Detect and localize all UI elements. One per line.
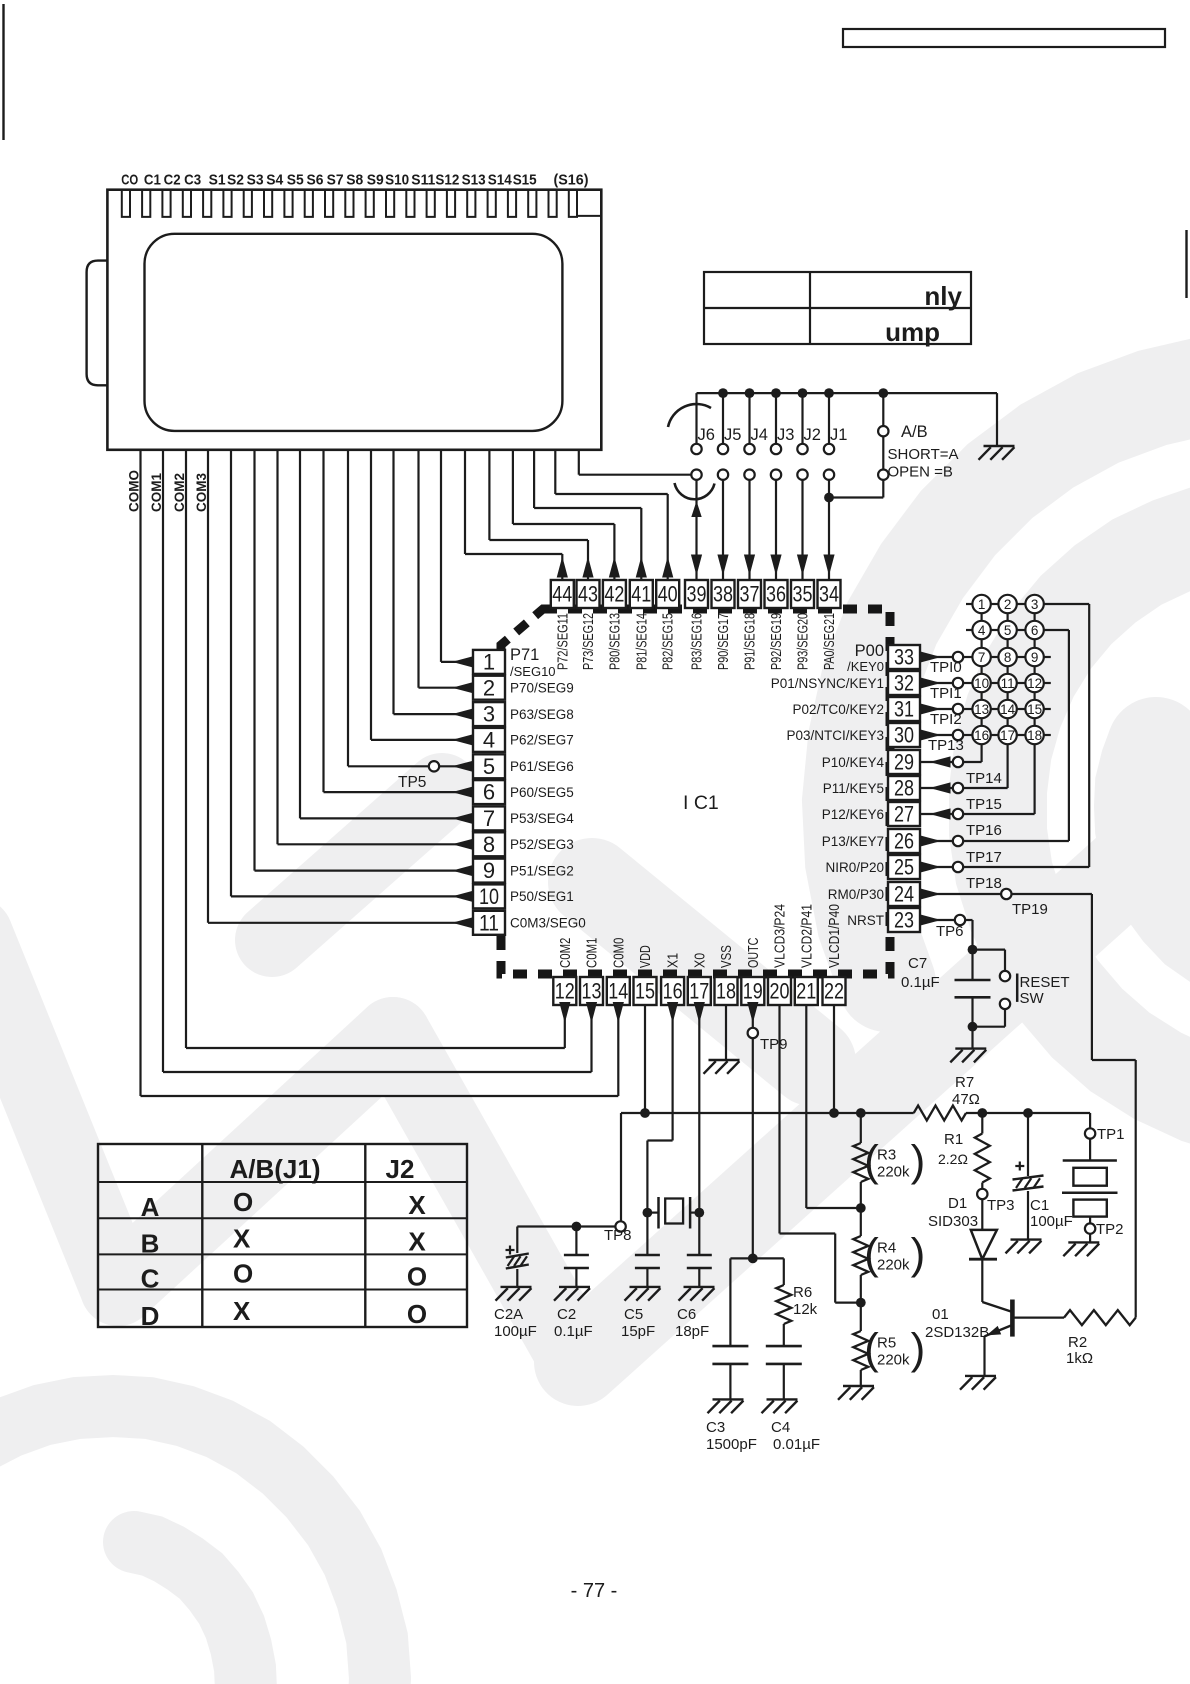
svg-text:1kΩ: 1kΩ [1066,1350,1093,1367]
svg-text:X: X [408,1190,426,1220]
svg-text:TP1: TP1 [1097,1126,1125,1143]
svg-text:43: 43 [578,582,598,607]
svg-text:TP6: TP6 [936,923,964,940]
svg-text:1: 1 [978,597,986,612]
svg-text:31: 31 [894,697,914,722]
svg-text:17: 17 [1000,728,1015,743]
svg-text:C2A: C2A [494,1306,523,1323]
svg-text:RM0/P30: RM0/P30 [828,887,884,902]
svg-text:15: 15 [1027,702,1042,717]
svg-text:/SEG10: /SEG10 [510,664,556,679]
svg-text:R6: R6 [793,1284,812,1301]
svg-text:I C1: I C1 [683,792,719,814]
svg-text:P13/KEY7: P13/KEY7 [822,834,884,849]
svg-text:7: 7 [483,806,495,831]
svg-text:VLCD1/P40: VLCD1/P40 [827,904,843,968]
svg-text:X: X [408,1226,426,1256]
svg-text:TP16: TP16 [966,822,1002,839]
svg-text:6: 6 [483,780,495,805]
svg-text:P92/SEG19: P92/SEG19 [769,613,785,670]
svg-text:23: 23 [894,908,914,933]
svg-text:S1: S1 [209,172,226,189]
svg-text:35: 35 [793,582,813,607]
svg-text:14: 14 [1000,702,1016,717]
svg-text:33: 33 [894,645,914,670]
svg-text:C4: C4 [771,1419,790,1436]
svg-text:P00: P00 [855,642,884,660]
svg-text:nly: nly [924,281,962,311]
svg-text:0.1µF: 0.1µF [554,1323,593,1340]
svg-text:TP18: TP18 [966,875,1002,892]
svg-text:X: X [233,1296,251,1326]
svg-text:9: 9 [483,858,495,883]
svg-text:R1: R1 [944,1131,963,1148]
svg-text:TP3: TP3 [987,1197,1015,1214]
svg-text:100µF: 100µF [494,1323,537,1340]
svg-text:(: ( [864,1230,879,1279]
svg-text:P81/SEG14: P81/SEG14 [634,613,650,670]
svg-text:C0M0: C0M0 [611,938,627,968]
svg-text:S14: S14 [488,172,513,189]
svg-text:OUTC: OUTC [746,938,762,968]
svg-text:/KEY0: /KEY0 [847,659,884,674]
svg-text:C: C [141,1264,160,1294]
svg-text:18: 18 [1027,728,1042,743]
svg-text:X1: X1 [666,953,682,968]
svg-text:J2: J2 [804,426,821,444]
svg-text:J1: J1 [830,426,847,444]
svg-text:S6: S6 [307,172,324,189]
svg-text:6: 6 [1031,623,1039,638]
svg-text:C2: C2 [557,1306,576,1323]
svg-text:P71: P71 [510,646,539,664]
svg-text:VDD: VDD [638,945,654,968]
svg-text:TP17: TP17 [966,849,1002,866]
svg-text:26: 26 [894,829,914,854]
svg-text:18pF: 18pF [675,1323,709,1340]
svg-text:8: 8 [1004,650,1012,665]
svg-text:22: 22 [824,979,844,1004]
svg-text:P11/KEY5: P11/KEY5 [823,781,884,796]
svg-text:8: 8 [483,832,495,857]
svg-text:S2: S2 [227,172,244,189]
svg-text:TP15: TP15 [966,796,1002,813]
svg-text:0.01µF: 0.01µF [773,1436,820,1453]
svg-text:TPI1: TPI1 [930,685,962,702]
svg-text:C6: C6 [677,1306,696,1323]
svg-text:TPI0: TPI0 [930,659,962,676]
svg-text:15: 15 [635,979,655,1004]
svg-text:2.2Ω: 2.2Ω [938,1151,968,1167]
svg-text:34: 34 [819,582,839,607]
svg-text:44: 44 [552,582,572,607]
svg-text:R7: R7 [955,1074,974,1091]
svg-text:P82/SEG15: P82/SEG15 [661,613,677,670]
svg-text:VLCD3/P24: VLCD3/P24 [773,904,789,968]
svg-text:P62/SEG7: P62/SEG7 [510,733,574,748]
svg-text:C0M3/SEG0: C0M3/SEG0 [510,916,586,931]
svg-text:S11: S11 [411,172,435,189]
svg-text:16: 16 [663,979,683,1004]
svg-text:NIR0/P20: NIR0/P20 [825,860,884,875]
svg-text:P01/NSYNC/KEY1: P01/NSYNC/KEY1 [771,676,884,691]
svg-text:R5: R5 [877,1335,896,1352]
svg-text:TP8: TP8 [604,1227,632,1244]
svg-text:C7: C7 [908,955,927,972]
svg-text:COM2: COM2 [172,473,187,512]
svg-text:P12/KEY6: P12/KEY6 [822,807,884,822]
svg-text:4: 4 [483,728,495,753]
svg-text:11: 11 [479,910,499,935]
svg-text:O: O [407,1299,427,1329]
svg-text:R2: R2 [1068,1334,1087,1351]
svg-text:VSS: VSS [719,945,735,968]
svg-text:X0: X0 [692,953,708,968]
svg-text:39: 39 [687,582,707,607]
svg-text:3: 3 [483,702,495,727]
svg-text:COM1: COM1 [149,473,164,512]
svg-text:S15: S15 [513,172,537,189]
svg-text:C1: C1 [1030,1197,1049,1214]
svg-text:P10/KEY4: P10/KEY4 [822,755,885,770]
svg-text:TP9: TP9 [760,1036,788,1053]
svg-text:2SD132B: 2SD132B [925,1324,989,1341]
svg-text:C1: C1 [144,172,161,189]
svg-text:- 77 -: - 77 - [571,1580,618,1602]
svg-text:SHORT=A: SHORT=A [888,446,959,463]
svg-text:P03/NTCI/KEY3: P03/NTCI/KEY3 [786,728,884,743]
svg-text:32: 32 [894,671,914,696]
svg-text:S9: S9 [367,172,384,189]
svg-text:PA0/SEG21: PA0/SEG21 [822,613,838,670]
svg-text:42: 42 [604,582,624,607]
svg-text:A: A [141,1192,160,1222]
svg-text:J5: J5 [724,426,741,444]
svg-text:C0M2: C0M2 [558,938,574,968]
svg-text:10: 10 [974,676,989,691]
svg-text:P53/SEG4: P53/SEG4 [510,811,574,826]
svg-text:2: 2 [483,675,495,700]
svg-text:27: 27 [894,802,914,827]
svg-text:29: 29 [894,750,914,775]
svg-text:S13: S13 [462,172,486,189]
svg-text:P73/SEG12: P73/SEG12 [581,613,597,670]
svg-text:40: 40 [658,582,678,607]
svg-text:10: 10 [479,884,499,909]
svg-text:P60/SEG5: P60/SEG5 [510,785,574,800]
svg-text:01: 01 [932,1306,949,1323]
svg-text:C0M1: C0M1 [585,938,601,968]
svg-text:P80/SEG13: P80/SEG13 [607,613,623,670]
svg-text:ump: ump [885,317,940,347]
svg-text:J2: J2 [386,1154,415,1184]
svg-text:18: 18 [716,979,736,1004]
svg-text:30: 30 [894,723,914,748]
svg-text:OPEN =B: OPEN =B [888,464,953,481]
svg-text:SID303: SID303 [928,1213,978,1230]
svg-text:47Ω: 47Ω [952,1091,980,1108]
svg-text:13: 13 [582,979,602,1004]
svg-text:C3: C3 [706,1419,725,1436]
svg-text:TPI2: TPI2 [930,711,962,728]
svg-text:(S16): (S16) [554,172,589,189]
svg-text:S3: S3 [247,172,264,189]
svg-text:S10: S10 [385,172,409,189]
svg-text:TP13: TP13 [928,737,964,754]
svg-text:1500pF: 1500pF [706,1436,757,1453]
svg-text:): ) [911,1325,926,1374]
svg-text:A/B(J1): A/B(J1) [229,1154,320,1184]
svg-text:A/B: A/B [901,423,928,441]
svg-text:S7: S7 [327,172,344,189]
svg-text:24: 24 [894,882,914,907]
svg-text:TP14: TP14 [966,770,1002,787]
svg-text:(: ( [864,1137,879,1186]
svg-text:TP5: TP5 [398,774,426,791]
svg-text:P93/SEG20: P93/SEG20 [796,613,812,670]
svg-text:COMO: COMO [127,470,142,512]
svg-text:X: X [233,1223,251,1253]
svg-text:O: O [407,1262,427,1292]
svg-text:VLCD2/P41: VLCD2/P41 [799,904,815,968]
svg-text:36: 36 [766,582,786,607]
svg-text:P51/SEG2: P51/SEG2 [510,863,574,878]
svg-text:21: 21 [796,979,816,1004]
svg-text:TP19: TP19 [1012,901,1048,918]
svg-text:NRST: NRST [847,913,884,928]
svg-text:CO: CO [121,172,138,189]
svg-text:P02/TC0/KEY2: P02/TC0/KEY2 [792,702,884,717]
svg-text:25: 25 [894,855,914,880]
svg-text:J3: J3 [777,426,794,444]
svg-text:38: 38 [713,582,733,607]
svg-text:220k: 220k [877,1352,910,1369]
svg-text:12k: 12k [793,1301,818,1318]
svg-text:P50/SEG1: P50/SEG1 [510,889,574,904]
svg-text:J6: J6 [698,426,715,444]
svg-text:): ) [911,1230,926,1279]
svg-text:S8: S8 [346,172,363,189]
svg-text:11: 11 [1001,676,1015,691]
svg-text:TP2: TP2 [1096,1221,1124,1238]
svg-text:RESET: RESET [1020,974,1070,991]
svg-text:D1: D1 [948,1195,967,1212]
svg-text:7: 7 [978,650,986,665]
svg-text:16: 16 [974,728,989,743]
svg-text:D: D [141,1301,160,1331]
svg-text:9: 9 [1031,650,1039,665]
svg-text:41: 41 [631,582,651,607]
svg-text:12: 12 [1027,676,1042,691]
svg-text:R4: R4 [877,1240,896,1257]
svg-text:4: 4 [978,623,986,638]
svg-text:O: O [233,1259,253,1289]
svg-text:P83/SEG16: P83/SEG16 [690,613,706,670]
svg-text:37: 37 [740,582,760,607]
svg-text:13: 13 [974,702,989,717]
svg-text:12: 12 [555,979,575,1004]
svg-text:2: 2 [1004,597,1012,612]
svg-text:17: 17 [689,979,709,1004]
svg-text:S4: S4 [266,172,284,189]
svg-text:100µF: 100µF [1030,1213,1073,1230]
svg-text:): ) [911,1137,926,1186]
svg-text:P90/SEG17: P90/SEG17 [716,613,732,670]
svg-text:O: O [233,1187,253,1217]
svg-text:J4: J4 [751,426,768,444]
svg-text:0.1µF: 0.1µF [901,974,940,991]
svg-text:P70/SEG9: P70/SEG9 [510,681,574,696]
svg-text:1: 1 [483,650,495,675]
svg-text:SW: SW [1020,990,1045,1007]
svg-text:220k: 220k [877,1257,910,1274]
svg-text:P52/SEG3: P52/SEG3 [510,837,574,852]
svg-text:C2: C2 [164,172,181,189]
svg-text:P72/SEG11: P72/SEG11 [555,613,571,670]
svg-text:COM3: COM3 [194,473,209,512]
svg-text:S12: S12 [435,172,459,189]
svg-text:R3: R3 [877,1147,896,1164]
svg-text:(: ( [864,1325,879,1374]
svg-text:P91/SEG18: P91/SEG18 [743,613,759,670]
svg-text:220k: 220k [877,1164,910,1181]
svg-text:C5: C5 [624,1306,643,1323]
svg-text:5: 5 [1004,623,1012,638]
svg-text:3: 3 [1031,597,1039,612]
svg-text:15pF: 15pF [621,1323,655,1340]
svg-text:P61/SEG6: P61/SEG6 [510,759,574,774]
svg-text:C3: C3 [184,172,201,189]
svg-text:S5: S5 [287,172,304,189]
svg-text:14: 14 [608,979,628,1004]
svg-text:5: 5 [483,754,495,779]
svg-text:19: 19 [743,979,763,1004]
svg-text:28: 28 [894,776,914,801]
svg-text:B: B [141,1228,160,1258]
svg-text:20: 20 [770,979,790,1004]
svg-text:P63/SEG8: P63/SEG8 [510,707,574,722]
